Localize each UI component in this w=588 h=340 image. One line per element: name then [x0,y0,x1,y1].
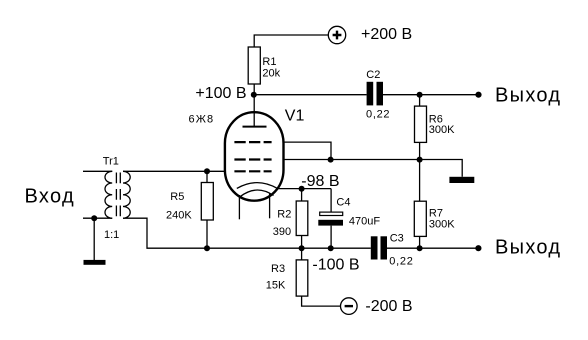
svg-text:Выход: Выход [495,237,561,259]
node R5 bottom [204,245,210,251]
heater lead left [238,195,240,219]
svg-text:6Ж8: 6Ж8 [189,114,215,126]
secondary winding [123,171,130,218]
grid row 2 [234,158,271,160]
svg-text:20k: 20k [262,67,280,79]
svg-text:C4: C4 [336,197,350,209]
svg-text:1:1: 1:1 [104,229,119,241]
wire suppressor row to ground branch [284,160,463,177]
wire -100V rail [207,247,371,249]
svg-text:R2: R2 [277,209,291,221]
cathode arc [237,183,278,189]
node C2/R6 junction [417,92,423,98]
svg-text:+100 В: +100 В [195,85,246,102]
node screen junction [328,157,334,163]
capacitor C4 [330,189,332,212]
svg-text:C2: C2 [366,69,380,81]
svg-text:R3: R3 [271,263,285,275]
svg-text:-98 В: -98 В [301,173,339,190]
svg-text:-200 В: -200 В [365,298,412,315]
core line left [115,173,117,219]
svg-text:0,22: 0,22 [366,109,390,121]
anode lead [253,95,255,127]
heater arc [241,190,274,196]
primary winding [105,171,112,218]
wire screen grid to right bend [284,142,332,159]
output terminal bottom [475,245,481,251]
wire secondary top to grid [123,170,225,172]
power terminal -200V circle [341,298,358,315]
svg-text:0,22: 0,22 [389,256,413,268]
power terminal +200V circle [328,26,345,43]
svg-text:300K: 300K [429,124,455,136]
svg-text:470uF: 470uF [349,215,380,227]
grid row 1 [234,141,271,143]
resistor R7 [419,160,421,202]
core line right [119,173,121,219]
capacitor C2 [367,82,374,106]
svg-text:Tr1: Tr1 [103,156,119,168]
wire R3 to -200V supply [302,296,341,306]
ground (right) [449,177,474,183]
node R6/R7 junction [417,157,423,163]
wire cathode to -98V node [277,188,331,190]
resistor R2 [301,189,303,201]
output terminal top [475,92,481,98]
wire input bottom [83,217,112,219]
resistor R1 [248,47,260,84]
node cathode junction [299,186,305,192]
svg-text:-100 В: -100 В [312,256,359,273]
grid row 3 [234,170,271,172]
svg-text:Выход: Выход [495,85,561,107]
svg-text:R5: R5 [170,191,184,203]
wire R1 top to +200V supply [254,35,328,95]
node +100V junction [251,92,257,98]
svg-text:390: 390 [273,226,291,238]
wire C2 to output [383,94,479,96]
node grid/R5 junction [204,168,210,174]
wire C3 to output [387,247,478,249]
tube V1 envelope [225,112,284,201]
node input ground junction [91,215,97,221]
node R7 bottom [417,245,423,251]
resistor R3 [296,260,308,296]
wire to left ground [93,218,95,260]
node C4 bottom [328,245,334,251]
anode plate [243,126,267,128]
svg-text:R1: R1 [262,56,276,68]
wire secondary bottom [123,218,207,248]
resistor R5 [206,171,208,182]
svg-text:15K: 15K [266,279,286,291]
svg-text:300K: 300K [429,219,455,231]
wire anode node to C2 [254,94,367,96]
svg-text:V1: V1 [285,108,305,125]
node R2/R3 [299,245,305,251]
wire input top [83,170,112,172]
svg-text:C3: C3 [390,233,404,245]
resistor R6 [419,95,421,106]
heater lead right [269,193,271,218]
ground (left) [84,260,106,265]
svg-text:Вход: Вход [25,185,75,207]
svg-text:240K: 240K [166,210,192,222]
svg-text:+200 В: +200 В [361,26,412,43]
capacitor C3 [371,236,378,259]
